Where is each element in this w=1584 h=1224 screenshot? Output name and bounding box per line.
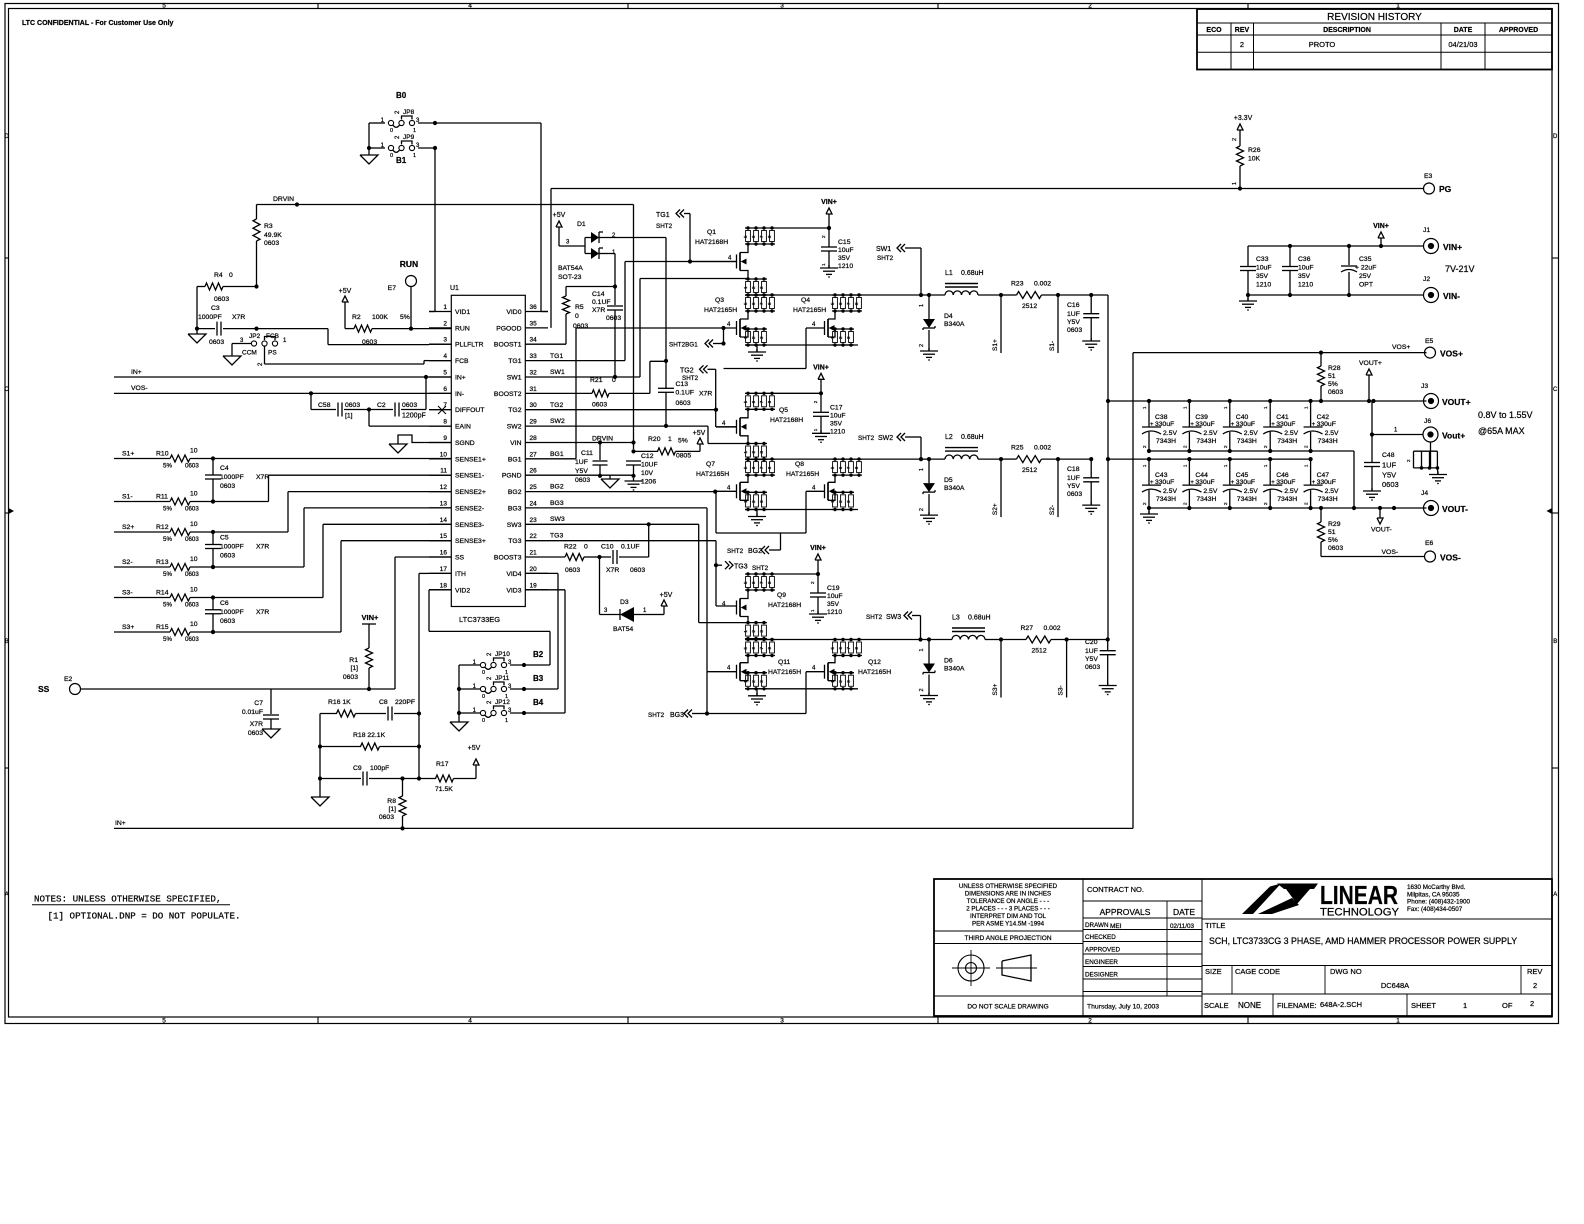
wire gate bus phase3 [707, 672, 806, 714]
svg-text:VIN: VIN [510, 440, 521, 447]
svg-text:7V-21V: 7V-21V [1445, 264, 1475, 274]
svg-text:23: 23 [530, 517, 538, 524]
svg-text:S3-: S3- [1058, 685, 1065, 695]
svg-text:SCALE: SCALE [1204, 1001, 1229, 1010]
svg-text:33: 33 [530, 353, 538, 360]
svg-text:2: 2 [1530, 999, 1534, 1008]
svg-text:TG2: TG2 [550, 402, 563, 409]
jumper JP9 (B1 select) [381, 134, 420, 165]
svg-text:C4: C4 [220, 465, 229, 472]
ground below C12 [633, 478, 635, 481]
svg-text:+5V: +5V [468, 745, 481, 752]
svg-text:PS: PS [268, 350, 277, 357]
svg-text:HAT2165H: HAT2165H [768, 669, 801, 676]
svg-text:R17: R17 [436, 761, 449, 768]
svg-text:SHT2: SHT2 [752, 565, 769, 572]
svg-text:SW3: SW3 [886, 614, 901, 621]
svg-text:B340A: B340A [944, 666, 965, 673]
wire TG2 net pin30 riser [548, 408, 718, 412]
transistor Q9 HAT2168H top pads [743, 572, 775, 591]
svg-text:BG1: BG1 [508, 456, 522, 463]
svg-text:5: 5 [162, 1018, 166, 1025]
resistor R14 10 5% [114, 587, 215, 609]
svg-text:7343H: 7343H [1156, 496, 1176, 503]
svg-text:S2+: S2+ [992, 503, 999, 515]
svg-text:SHT2: SHT2 [656, 223, 673, 230]
diode D4 B340A [919, 295, 965, 351]
svg-text:SGND: SGND [455, 440, 475, 447]
capacitor C16 1UF Y5V [1067, 295, 1099, 341]
svg-text:12: 12 [440, 484, 448, 491]
svg-text:Q4: Q4 [801, 297, 810, 304]
svg-text:VID3: VID3 [506, 587, 521, 594]
svg-text:VOS-: VOS- [1382, 549, 1399, 556]
svg-text:2.5V: 2.5V [1325, 488, 1339, 495]
svg-text:VOUT+: VOUT+ [1359, 360, 1382, 367]
wire source bus phase2 [745, 509, 858, 511]
svg-text:IN+: IN+ [131, 369, 142, 376]
svg-text:C18: C18 [1067, 466, 1080, 473]
svg-text:0603: 0603 [185, 463, 199, 470]
svg-text:BG2: BG2 [508, 489, 522, 496]
svg-text:1206: 1206 [641, 479, 656, 486]
svg-text:0: 0 [482, 670, 485, 676]
svg-text:35: 35 [530, 320, 538, 327]
svg-text:4: 4 [468, 3, 472, 10]
svg-text:2: 2 [1240, 40, 1244, 49]
svg-text:C35: C35 [1359, 256, 1372, 263]
svg-text:FILENAME:: FILENAME: [1277, 1001, 1317, 1010]
transistor Q4 source pads [830, 327, 854, 346]
svg-text:IN+: IN+ [115, 820, 126, 827]
capacitor C13 0.1UF boost2 [658, 361, 712, 428]
svg-text:35V: 35V [1256, 273, 1269, 280]
wire B0 net JP8-3 to U1 VID0 pin36 [418, 121, 548, 312]
svg-text:1: 1 [919, 304, 925, 307]
wire VOUT+ bus [1106, 399, 1427, 403]
svg-text:330uF: 330uF [1195, 421, 1214, 428]
Linear Technology logo [1242, 880, 1471, 919]
svg-text:0: 0 [482, 718, 485, 724]
svg-text:DWG NO: DWG NO [1330, 967, 1362, 976]
svg-text:35V: 35V [827, 601, 840, 608]
svg-text:JP12: JP12 [495, 699, 510, 706]
svg-text:2.5V: 2.5V [1163, 430, 1177, 437]
wire D1-2 to C13/BOOST2 node [599, 238, 666, 362]
svg-text:1: 1 [919, 648, 925, 651]
svg-text:S1+: S1+ [122, 451, 134, 458]
svg-text:1210: 1210 [1298, 282, 1313, 289]
resistor R18 22.1K [318, 714, 421, 779]
capacitor C46 330uF 2.5V [1263, 457, 1298, 510]
svg-text:BG3: BG3 [508, 505, 522, 512]
svg-text:TG1: TG1 [508, 358, 521, 365]
svg-text:1000PF: 1000PF [220, 544, 244, 551]
svg-text:VIN+: VIN+ [1443, 242, 1462, 252]
resistor R27 0.002 2512 [1021, 625, 1061, 655]
svg-text:1UF: 1UF [1067, 475, 1080, 482]
svg-text:SHT2BG1: SHT2BG1 [669, 342, 698, 349]
svg-text:2.5V: 2.5V [1203, 488, 1217, 495]
wire BG1 net pin27 riser [548, 326, 736, 459]
svg-text:13: 13 [440, 500, 448, 507]
svg-text:10V: 10V [641, 470, 654, 477]
svg-text:PLLFLTR: PLLFLTR [455, 342, 484, 349]
svg-text:APPROVED: APPROVED [1499, 27, 1538, 34]
svg-text:R20: R20 [648, 436, 661, 443]
svg-text:16: 16 [440, 550, 448, 557]
wire BG2 net pin25 [548, 490, 717, 494]
svg-text:C14: C14 [592, 291, 605, 298]
wire B3 net JP11-3 to pin20 VID4 [510, 573, 558, 691]
svg-text:S1+: S1+ [992, 339, 999, 351]
svg-text:+3.3V: +3.3V [1234, 115, 1253, 122]
svg-text:REV: REV [1235, 27, 1250, 34]
wire S3- to U1 pin14 [213, 524, 451, 597]
transistor Q12 HAT2165H symbol [806, 656, 891, 681]
svg-text:S3+: S3+ [992, 684, 999, 696]
svg-text:0805: 0805 [676, 453, 691, 460]
svg-text:R4: R4 [214, 272, 223, 279]
svg-text:35V: 35V [838, 255, 851, 262]
transistor Q9 source pads [743, 621, 767, 640]
resistor R28 51 5% [1318, 353, 1344, 401]
svg-text:R26: R26 [1248, 147, 1261, 154]
svg-text:0603: 0603 [402, 402, 417, 409]
svg-text:PROTO: PROTO [1309, 40, 1336, 49]
svg-text:2.5V: 2.5V [1203, 430, 1217, 437]
revision history table [1197, 9, 1552, 70]
svg-text:34: 34 [530, 337, 538, 344]
svg-text:VIN-: VIN- [1443, 291, 1460, 301]
svg-text:20: 20 [530, 566, 538, 573]
transistor Q7 source pads [743, 491, 767, 512]
wire SW3 net pin23 riser [548, 522, 748, 622]
approvals table [1083, 885, 1202, 1011]
svg-text:1: 1 [919, 468, 925, 471]
wire input cap bus top [1248, 245, 1424, 247]
jumper JP11 (B3) [473, 674, 544, 700]
wire SW1 arrow riser [876, 244, 921, 295]
capacitor C45 330uF 2.5V [1223, 457, 1258, 510]
ground below Q11 [748, 689, 766, 705]
svg-text:SOT-23: SOT-23 [558, 274, 582, 281]
svg-text:Q11: Q11 [778, 659, 791, 666]
svg-text:VIN+: VIN+ [821, 199, 837, 206]
svg-text:0603: 0603 [1382, 480, 1399, 489]
svg-text:21: 21 [530, 550, 538, 557]
svg-text:R10: R10 [156, 451, 169, 458]
svg-text:IN+: IN+ [455, 375, 466, 382]
svg-text:Q3: Q3 [715, 297, 724, 304]
svg-text:0603: 0603 [592, 402, 607, 409]
svg-text:11: 11 [440, 468, 447, 475]
connector J6 shield pins [1406, 442, 1439, 475]
wire SS net E2 to pin16 [81, 557, 452, 691]
ground below J6 shield [1437, 472, 1439, 475]
svg-text:31: 31 [530, 386, 538, 393]
svg-text:+5V: +5V [693, 430, 706, 437]
svg-text:1: 1 [1463, 1001, 1467, 1010]
resistor R13 10 5% [114, 556, 215, 578]
svg-text:E5: E5 [1425, 338, 1434, 345]
ground below C3 [188, 334, 206, 343]
power flag VIN+ phase1 [775, 199, 837, 230]
node S2+ sense tap [992, 459, 1001, 517]
svg-text:2: 2 [919, 344, 925, 347]
svg-text:C9: C9 [353, 765, 362, 772]
svg-text:1: 1 [413, 153, 416, 159]
svg-text:SHT2: SHT2 [682, 375, 699, 382]
svg-text:TG3: TG3 [734, 564, 748, 571]
transistor Q4 HAT2165H drain pads [830, 293, 862, 312]
svg-text:APPROVED: APPROVED [1085, 947, 1120, 954]
svg-text:35V: 35V [830, 420, 843, 427]
svg-text:0: 0 [584, 544, 588, 551]
svg-text:7343H: 7343H [1318, 438, 1338, 445]
svg-text:L3: L3 [952, 615, 960, 622]
svg-text:2512: 2512 [1022, 467, 1037, 474]
svg-text:[1]: [1] [388, 806, 396, 813]
svg-text:DATE: DATE [1173, 907, 1195, 917]
transistor Q12 HAT2165H drain pads [830, 638, 862, 657]
wire S3+ to U1 pin15 [213, 541, 451, 632]
capacitor C7 0.01uF [242, 689, 279, 737]
svg-text:SW2: SW2 [550, 418, 565, 425]
diode D3 BAT54 [600, 557, 665, 633]
connector J6 Vout+ [1370, 401, 1465, 442]
svg-text:CAGE CODE: CAGE CODE [1235, 967, 1280, 976]
svg-text:0: 0 [612, 377, 616, 384]
svg-text:4: 4 [443, 353, 447, 360]
svg-text:C: C [1553, 387, 1558, 393]
svg-text:10: 10 [190, 448, 198, 455]
svg-text:BG3: BG3 [670, 712, 684, 719]
svg-text:PG: PG [1439, 184, 1452, 194]
svg-text:1: 1 [443, 304, 447, 311]
svg-text:DC648A: DC648A [1381, 981, 1409, 990]
svg-text:TG2: TG2 [680, 368, 694, 375]
svg-text:R15: R15 [156, 624, 169, 631]
ground below C20 [1107, 683, 1109, 686]
svg-text:C16: C16 [1067, 302, 1080, 309]
svg-text:2.5V: 2.5V [1284, 430, 1298, 437]
node S3+ sense tap [992, 640, 1001, 698]
svg-text:1000PF: 1000PF [220, 609, 244, 616]
capacitor C42 330uF 2.5V [1304, 399, 1339, 453]
wire VOS- rail [1321, 549, 1425, 557]
svg-text:+: + [1231, 480, 1235, 486]
svg-text:2 PLACES - - - 3 PLACES - -: 2 PLACES - - - 3 PLACES - - - [966, 906, 1050, 913]
svg-text:TOLERANCE ON ANGLE - - -: TOLERANCE ON ANGLE - - - [967, 898, 1049, 905]
capacitor C11 1UF [575, 443, 608, 485]
wire S1- to U1 pin11 [213, 475, 451, 501]
svg-text:BOOST1: BOOST1 [494, 342, 522, 349]
svg-text:VOUT+: VOUT+ [1442, 397, 1471, 407]
power flag +5V (R2) [342, 296, 348, 302]
svg-text:330uF: 330uF [1155, 421, 1174, 428]
svg-text:REV: REV [1527, 967, 1542, 976]
svg-text:C11: C11 [581, 450, 593, 457]
svg-text:330uF: 330uF [1195, 479, 1214, 486]
svg-text:5%: 5% [163, 536, 172, 543]
svg-text:0603: 0603 [220, 618, 235, 625]
transistor Q5 HAT2168H top pads [743, 392, 775, 411]
resistor R23 0.002 2512 [1011, 281, 1051, 311]
svg-text:1630 McCarthy Blvd.: 1630 McCarthy Blvd. [1407, 884, 1466, 891]
svg-text:B340A: B340A [944, 321, 965, 328]
wire SW2 net pin29 [548, 426, 748, 443]
ground below JP2 [223, 356, 241, 365]
svg-text:VOUT-: VOUT- [1442, 504, 1468, 514]
svg-text:10uF: 10uF [830, 412, 846, 419]
svg-text:C40: C40 [1236, 414, 1249, 421]
svg-text:+: + [1271, 480, 1275, 486]
svg-text:VID0: VID0 [506, 309, 521, 316]
svg-text:26: 26 [530, 468, 538, 475]
svg-text:APPROVALS: APPROVALS [1100, 907, 1151, 917]
svg-text:TG1: TG1 [656, 212, 670, 219]
transistor Q5 HAT2168H symbol [716, 407, 803, 444]
svg-text:@65A MAX: @65A MAX [1478, 426, 1525, 436]
capacitor C18 1UF Y5V [1067, 459, 1099, 505]
svg-text:R28: R28 [1328, 365, 1341, 372]
svg-text:B340A: B340A [944, 485, 965, 492]
svg-text:UNLESS OTHERWISE SPECIFIED: UNLESS OTHERWISE SPECIFIED [959, 883, 1058, 890]
svg-text:0: 0 [575, 313, 579, 320]
svg-text:C45: C45 [1236, 472, 1249, 479]
svg-text:C20: C20 [1085, 639, 1098, 646]
svg-text:R12: R12 [156, 524, 169, 531]
svg-text:22: 22 [530, 533, 538, 540]
svg-text:2512: 2512 [1032, 648, 1047, 655]
resistor R16 1K [320, 699, 386, 717]
wire Q7 gate line [715, 490, 736, 492]
third angle projection symbol [952, 950, 1037, 986]
capacitor C35 22uF OPT [1341, 246, 1376, 295]
resistor R25 0.002 2512 [1011, 445, 1051, 475]
svg-text:1210: 1210 [1256, 282, 1271, 289]
wire Q1 gate line handled in symbol [0, 0, 1, 1]
svg-text:0: 0 [390, 128, 393, 134]
svg-text:2: 2 [443, 320, 447, 327]
svg-text:SW1: SW1 [507, 375, 522, 382]
svg-text:SHEET: SHEET [1411, 1001, 1436, 1010]
svg-text:0603: 0603 [345, 402, 360, 409]
svg-text:02/11/03: 02/11/03 [1170, 923, 1195, 930]
power flag VIN+ phase3 [775, 545, 826, 576]
svg-text:VOUT-: VOUT- [1371, 527, 1392, 534]
svg-text:C46: C46 [1276, 472, 1289, 479]
svg-text:Q9: Q9 [777, 592, 786, 599]
svg-text:0.68uH: 0.68uH [968, 615, 991, 622]
svg-text:S2-: S2- [1049, 505, 1056, 515]
svg-text:VID4: VID4 [506, 571, 521, 578]
svg-text:0603: 0603 [248, 730, 263, 737]
svg-text:D: D [5, 134, 10, 140]
resistor R4 0 [197, 272, 259, 329]
wire TG3 net pin22 riser [548, 541, 716, 606]
title field [1202, 919, 1552, 1016]
svg-text:330uF: 330uF [1236, 421, 1255, 428]
svg-text:100K: 100K [372, 314, 388, 321]
svg-text:0603: 0603 [185, 536, 199, 543]
svg-text:36: 36 [530, 304, 538, 311]
svg-text:BAT54: BAT54 [613, 626, 633, 633]
svg-text:DIMENSIONS ARE IN INCHES: DIMENSIONS ARE IN INCHES [965, 891, 1051, 898]
wire EAIN net C2-C58 junction to pin8 [369, 410, 451, 427]
transistor Q11 source pads [743, 671, 767, 691]
text output voltage range [1478, 410, 1533, 436]
inductor L1 0.68uH [945, 270, 984, 295]
capacitor C39 330uF 2.5V [1182, 399, 1217, 453]
svg-text:B3: B3 [533, 674, 544, 683]
svg-text:0603: 0603 [575, 477, 590, 484]
svg-text:ITH: ITH [455, 571, 466, 578]
capacitor C20 1UF Y5V [1085, 639, 1116, 686]
svg-text:5: 5 [162, 3, 166, 10]
svg-text:0603: 0603 [1328, 389, 1343, 396]
svg-text:330uF: 330uF [1236, 479, 1255, 486]
svg-text:Y5V: Y5V [575, 468, 588, 475]
svg-text:RUN: RUN [455, 325, 470, 332]
svg-text:2: 2 [919, 688, 925, 691]
svg-text:0.002: 0.002 [1034, 281, 1051, 288]
resistor R20 1 5% [634, 436, 701, 460]
svg-text:SIZE: SIZE [1205, 967, 1222, 976]
pin 7 no-connect X [438, 406, 446, 414]
svg-text:R1: R1 [349, 657, 358, 664]
svg-text:0603: 0603 [362, 339, 377, 346]
svg-text:C36: C36 [1298, 256, 1311, 263]
svg-text:DRAWN: DRAWN [1085, 922, 1109, 929]
svg-text:B4: B4 [533, 698, 544, 707]
svg-text:HAT2168H: HAT2168H [768, 602, 801, 609]
svg-text:Q5: Q5 [779, 407, 788, 414]
power flag VOUT- arrow [1371, 506, 1392, 534]
svg-text:B2: B2 [533, 650, 544, 659]
wire Q11 gate line [707, 671, 737, 673]
svg-text:S3-: S3- [122, 590, 133, 597]
svg-text:VID1: VID1 [455, 309, 470, 316]
wire gate bus phase1 [724, 328, 807, 369]
svg-text:10: 10 [190, 491, 198, 498]
ground below C17 [820, 430, 822, 433]
jumper JP2 CCM/PS [240, 333, 287, 366]
svg-text:7343H: 7343H [1196, 438, 1216, 445]
svg-text:29: 29 [530, 419, 538, 426]
svg-text:R23: R23 [1011, 281, 1024, 288]
testpoint E7 RUN [388, 259, 419, 329]
svg-text:X7R: X7R [232, 314, 245, 321]
wire source bus phase1 [745, 344, 858, 346]
svg-text:330uF: 330uF [1317, 479, 1336, 486]
svg-text:10uF: 10uF [838, 247, 854, 254]
svg-text:DESIGNER: DESIGNER [1085, 972, 1118, 979]
svg-text:7343H: 7343H [1318, 496, 1338, 503]
testpoint E2 SS [38, 676, 81, 695]
svg-text:[1]: [1] [345, 413, 353, 420]
svg-text:7343H: 7343H [1237, 496, 1257, 503]
svg-text:0: 0 [390, 153, 393, 159]
svg-text:Vout+: Vout+ [1442, 431, 1465, 441]
svg-text:+5V: +5V [660, 592, 673, 599]
svg-text:SENSE3+: SENSE3+ [455, 538, 486, 545]
off-sheet arrow SHT2 BG3 [648, 710, 709, 720]
jumper JP8 (B0 select) [381, 91, 420, 134]
svg-text:330uF: 330uF [1276, 479, 1295, 486]
resistor R3 49.9K [253, 205, 282, 287]
